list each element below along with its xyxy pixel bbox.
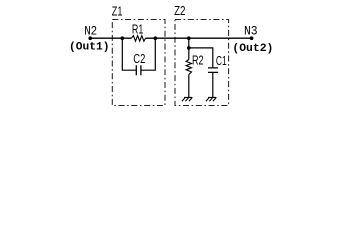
svg-text:C1: C1 <box>216 53 227 68</box>
svg-text:Z1: Z1 <box>112 4 123 19</box>
junction dot R2 top <box>187 36 191 40</box>
resistor R1 <box>131 36 145 42</box>
wire C1 branch lower <box>212 73 214 97</box>
wire C1 branch upper <box>189 48 213 68</box>
block Z2 box <box>175 20 229 106</box>
svg-text:R1: R1 <box>132 22 143 37</box>
svg-text:(Out1): (Out1) <box>69 42 110 54</box>
svg-text:C2: C2 <box>133 51 145 66</box>
junction dot R1 left <box>121 36 125 40</box>
wire R2 branch upper <box>188 38 190 59</box>
wire main horizontal <box>90 37 251 39</box>
ground for C1 <box>206 97 216 101</box>
ground for R2 <box>182 97 192 101</box>
resistor R2 <box>186 60 191 75</box>
node N2 <box>88 36 92 40</box>
node N3 <box>250 36 254 40</box>
svg-text:R2: R2 <box>192 53 204 68</box>
junction dot C1 tap <box>187 46 191 50</box>
capacitor C2 <box>136 65 141 75</box>
svg-text:(Out2): (Out2) <box>232 43 273 55</box>
svg-text:N3: N3 <box>244 24 258 38</box>
capacitor C1 <box>208 68 218 73</box>
block Z1 box <box>112 20 165 106</box>
svg-text:Z2: Z2 <box>174 3 185 18</box>
svg-text:N2: N2 <box>84 24 97 38</box>
junction dot R1 right <box>154 36 158 40</box>
wire R2 branch lower <box>188 75 190 98</box>
wire C2 branch <box>122 38 155 70</box>
